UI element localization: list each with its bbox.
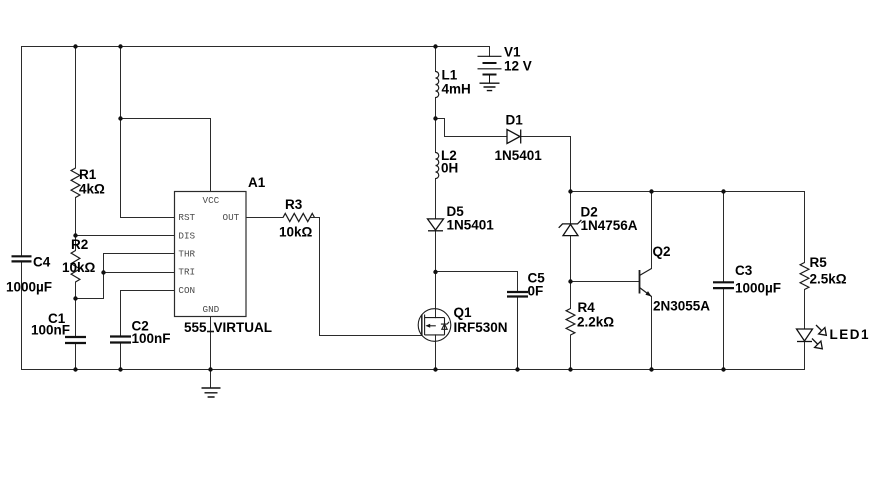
svg-text:555: 555 [184,320,207,335]
wire mid rail [571,191,805,193]
wire left rail upper [21,47,23,256]
label Q2 [653,244,711,314]
label V1 [504,44,532,73]
svg-text:2N3055A: 2N3055A [653,298,710,313]
ground at 555 GND [202,388,221,397]
label LED1 [830,327,871,342]
svg-text:0H: 0H [441,160,458,175]
svg-text:THR: THR [178,248,195,259]
resistor R4 [566,309,575,336]
svg-text:0F: 0F [528,283,544,298]
svg-text:IRF530N: IRF530N [454,320,508,335]
wire L1 top [435,47,437,72]
diode D1 [507,130,521,144]
label D5 [447,204,495,233]
label R2 [62,237,96,275]
IC A1 555 timer box [175,192,247,317]
label L1 [442,67,471,96]
label R1 [79,167,105,197]
wire R2 to link junction [75,282,77,336]
label Q1 [454,305,508,335]
wire L2 to D5 [435,179,437,219]
svg-text:100nF: 100nF [31,322,70,337]
label D1 [495,112,543,162]
wire RST horizontal [121,217,175,219]
diode D5 [428,219,444,231]
label C4 [6,254,52,294]
wire OUT to R3 [246,217,283,219]
LED LED1 [797,325,827,349]
svg-text:R3: R3 [285,197,303,212]
wire R5 to LED [804,290,806,330]
svg-text:L1: L1 [442,67,458,82]
svg-text:VCC: VCC [203,195,220,206]
pin label THR [178,248,195,259]
svg-text:RST: RST [178,212,195,223]
svg-text:A1: A1 [248,175,266,190]
svg-text:DIS: DIS [178,230,195,241]
label R4 [577,300,614,330]
svg-text:OUT: OUT [223,212,240,223]
resistor R1 [71,168,80,197]
pin label RST [178,212,195,223]
svg-text:C4: C4 [33,254,51,269]
pin label OUT [223,212,240,223]
battery V1 [478,56,502,83]
wire R4 bottom [570,335,572,370]
svg-text:Q1: Q1 [454,305,473,320]
svg-text:10kΩ: 10kΩ [62,260,96,275]
pin label GND [203,304,220,315]
resistor R2 [71,251,80,283]
capacitor C2 [110,337,131,343]
label R3 [279,197,313,240]
wire DIS [76,235,175,237]
capacitor C3 [713,282,734,288]
wire left rail lower [21,262,23,369]
wire R1 column top [75,47,77,169]
label A1 [248,175,266,190]
zener diode D2 [559,220,582,236]
svg-text:2.5kΩ: 2.5kΩ [810,271,847,286]
inductor L2 [436,153,439,179]
svg-text:1N4756A: 1N4756A [581,218,638,233]
wire Q2 collector [651,192,653,269]
pin label VCC [203,195,220,206]
wire C2 bottom [120,344,122,370]
inductor L1 [436,72,439,98]
wire D2 to base node [570,236,572,309]
svg-text:4mH: 4mH [442,81,471,96]
label C3 [735,263,781,296]
svg-text:1N5401: 1N5401 [447,217,495,232]
wire C1 bottom [75,344,77,369]
wire THR [76,254,175,299]
wire R1 to DIS junction [75,198,77,251]
capacitor C4 [12,256,32,261]
wire R3 to gate [310,218,422,336]
wire top rail [22,46,490,48]
svg-text:D1: D1 [506,112,524,127]
wire Q1 source [435,335,437,370]
label C2 [132,318,171,346]
label 555 VIRTUAL [184,320,272,335]
wire C3 bottom [723,289,725,369]
svg-text:V1: V1 [504,44,521,59]
svg-text:1000µF: 1000µF [6,279,52,294]
wire drain to C5 [436,272,518,292]
wire C5 bottom [517,298,519,370]
label C5 [528,270,546,298]
svg-text:1N5401: 1N5401 [495,148,543,163]
wire Q2 emitter [651,297,653,370]
svg-text:4kΩ: 4kΩ [79,181,105,196]
label C1 [31,311,70,338]
wire Q2 base [571,281,640,283]
svg-text:R2: R2 [71,237,88,252]
wire VCC link [121,119,211,192]
wire GND pin [210,317,212,389]
transistor Q2 [640,269,652,297]
svg-text:1000µF: 1000µF [735,280,781,295]
wire node to D1 [436,119,508,137]
svg-text:GND: GND [203,304,220,315]
wire D1 to D2 branch [521,137,571,192]
svg-text:100nF: 100nF [132,331,171,346]
wire CON [121,291,175,336]
svg-text:R4: R4 [578,300,596,315]
svg-text:2.2kΩ: 2.2kΩ [577,314,614,329]
wire D5 to Q1 drain [435,231,437,318]
svg-text:10kΩ: 10kΩ [279,224,313,239]
svg-text:12 V: 12 V [504,58,532,73]
label L2 [441,148,458,176]
wire LED bottom [804,342,806,370]
label D2 [581,204,638,233]
svg-text:R1: R1 [79,167,97,182]
label R5 [810,255,847,287]
svg-text:CON: CON [178,285,195,296]
pin label TRI [178,266,195,277]
wire bottom rail [22,369,805,371]
pin label CON [178,285,195,296]
svg-text:LED1: LED1 [830,327,871,342]
pin label DIS [178,230,195,241]
resistor R3 [283,213,315,221]
wire TRI [104,272,175,274]
svg-text:Q2: Q2 [653,244,671,259]
transistor Q1 MOSFET [418,309,451,342]
svg-text:C3: C3 [735,263,753,278]
wire RST vertical [120,47,122,218]
ground at V1 [480,83,500,90]
capacitor C1 [65,337,86,343]
svg-text:VIRTUAL: VIRTUAL [214,320,273,335]
capacitor C5 [507,292,528,297]
wire battery stub [489,47,491,57]
wire L1 to node [435,98,437,153]
GND pin stub tick [207,331,214,333]
svg-text:TRI: TRI [178,266,195,277]
svg-text:R5: R5 [810,255,828,270]
wire R5 top [804,192,806,263]
wire C3 top [723,192,725,282]
wire D2 top [570,192,572,224]
resistor R5 [800,263,809,290]
